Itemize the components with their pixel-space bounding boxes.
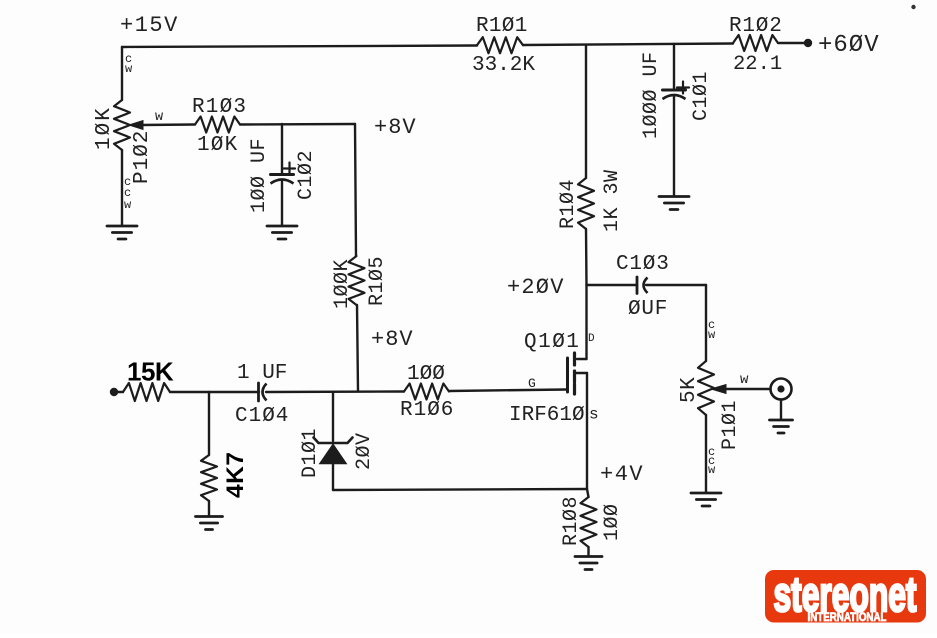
svg-text:P1Ø2: P1Ø2 — [131, 130, 154, 184]
svg-text:R1Ø5: R1Ø5 — [366, 256, 389, 306]
svg-text:+8V: +8V — [374, 115, 417, 140]
svg-text:w: w — [124, 198, 132, 212]
svg-text:+6ØV: +6ØV — [818, 32, 880, 59]
svg-text:R1Ø4: R1Ø4 — [557, 179, 580, 229]
svg-text:+2ØV: +2ØV — [507, 275, 565, 300]
svg-text:C1Ø3: C1Ø3 — [616, 253, 670, 276]
svg-text:Q1Ø1: Q1Ø1 — [524, 331, 580, 354]
svg-text:1ØØ: 1ØØ — [407, 363, 445, 386]
svg-text:R1Ø2: R1Ø2 — [729, 15, 783, 38]
svg-text:w: w — [155, 110, 163, 125]
svg-text:C1Ø4: C1Ø4 — [235, 405, 289, 428]
svg-text:INTERNATIONAL: INTERNATIONAL — [808, 610, 887, 624]
svg-text:P1Ø1: P1Ø1 — [719, 400, 742, 450]
svg-text:+8V: +8V — [371, 327, 414, 352]
svg-text:R1Ø8: R1Ø8 — [560, 496, 583, 546]
svg-text:2ØV: 2ØV — [353, 432, 376, 470]
svg-text:w: w — [708, 328, 716, 342]
svg-text:4K7: 4K7 — [222, 452, 249, 498]
svg-text:+15V: +15V — [120, 13, 179, 38]
svg-text:w: w — [125, 62, 133, 76]
svg-text:1ØØ: 1ØØ — [601, 503, 624, 541]
svg-text:R1Ø1: R1Ø1 — [476, 15, 528, 38]
svg-text:1ØK: 1ØK — [93, 106, 116, 150]
svg-text:1ØØK: 1ØØK — [331, 259, 354, 309]
svg-text:1K 3W: 1K 3W — [601, 169, 624, 232]
svg-text:ØUF: ØUF — [628, 298, 668, 321]
svg-text:R1Ø3: R1Ø3 — [192, 96, 247, 119]
svg-text:C1Ø2: C1Ø2 — [295, 150, 318, 200]
svg-text:C1Ø1: C1Ø1 — [690, 71, 713, 121]
svg-text:15K: 15K — [127, 357, 174, 387]
svg-text:w: w — [740, 372, 749, 388]
svg-text:1ØØØ UF: 1ØØØ UF — [640, 51, 663, 139]
svg-text:33.2K: 33.2K — [472, 54, 535, 77]
svg-text:s: s — [589, 406, 599, 424]
svg-text:G: G — [528, 376, 536, 391]
svg-text:5K: 5K — [678, 377, 701, 403]
svg-text:+4V: +4V — [600, 462, 644, 487]
svg-text:1ØØ UF: 1ØØ UF — [248, 138, 271, 213]
svg-text:R1Ø6: R1Ø6 — [400, 399, 454, 422]
svg-text:IRF61Ø: IRF61Ø — [509, 404, 585, 427]
svg-text:22.1: 22.1 — [733, 53, 782, 76]
svg-text:1ØK: 1ØK — [197, 134, 238, 157]
svg-text:1 UF: 1 UF — [237, 362, 287, 385]
svg-text:D1Ø1: D1Ø1 — [299, 428, 322, 478]
svg-text:D: D — [588, 333, 595, 345]
svg-text:w: w — [708, 463, 716, 477]
